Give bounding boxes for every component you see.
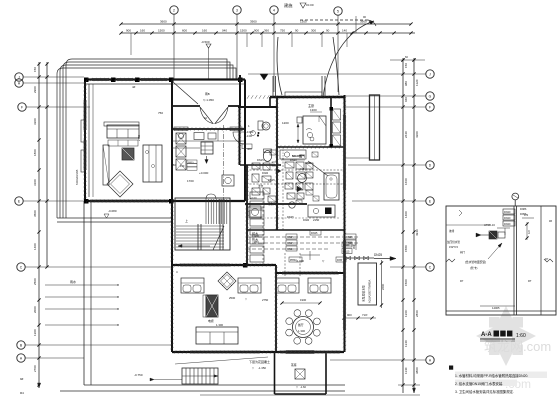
svg-text:DN25: DN25 [311,232,318,235]
svg-text:-0.750: -0.750 [134,373,143,377]
svg-text:R7: R7 [545,257,549,261]
svg-text:1400: 1400 [404,211,408,218]
bedroom closet right wall [330,107,341,148]
svg-text:2750: 2750 [137,134,141,141]
svg-text:DN25: DN25 [346,235,353,239]
svg-text:150: 150 [404,63,408,68]
svg-text:DN15: DN15 [343,251,350,254]
pipe runs with valve tags [246,230,358,277]
detail stacked meter boxes [503,209,515,226]
grid bubble axis E left [15,197,84,205]
svg-text:2000: 2000 [33,306,37,313]
svg-text:DN25: DN25 [287,215,294,219]
detail leader note pipe mount [465,243,502,270]
dining labels [262,298,322,305]
svg-text:2: 2 [173,8,175,12]
bedroom labels [282,103,322,125]
dimension 900 710 below pump room [342,313,376,320]
grid bubble axis G right [345,92,434,100]
tv cabinet [103,145,109,185]
svg-text:3600: 3600 [160,20,167,24]
drawing set label 建施 with elevation mark [284,2,314,9]
wall columns top row [84,78,248,268]
notes block bottom right [449,366,528,395]
svg-text:DN20: DN20 [262,172,269,175]
hall valve label stack [180,160,197,170]
section detail A-A box [446,206,556,315]
svg-text:2750: 2750 [262,298,269,302]
grid bubble axis E right [352,197,434,205]
detail water meter assembly [476,228,510,239]
svg-text:R4: R4 [20,391,24,395]
svg-text:900: 900 [347,313,352,317]
kitchen counter south with sink and stove [308,205,335,222]
living west windows [75,120,85,185]
svg-text:1500: 1500 [404,279,408,286]
svg-text:+0.000: +0.000 [199,171,209,175]
svg-text:PPRA: PPRA [290,259,297,262]
svg-text:2700: 2700 [33,365,37,372]
svg-text:DN15: DN15 [188,162,194,164]
svg-text:AQUA3SET/TW85A: AQUA3SET/TW85A [368,280,372,303]
sideboard dining [143,145,162,182]
svg-text:电视: 电视 [208,319,214,323]
svg-text:1340: 1340 [404,340,408,347]
vestibule inner wall with sills [172,127,245,131]
detail wall line right [540,206,542,315]
svg-text:1120: 1120 [415,79,419,86]
svg-text:1300: 1300 [33,329,37,336]
detail small dims right [460,214,549,283]
terrace nested outline top-left [57,59,236,218]
grid bubble axis A right [330,356,434,364]
svg-text:F: F [21,105,23,109]
svg-text:5: 5 [337,9,339,13]
terrace edge below living room [57,218,172,222]
svg-text:-1.350: -1.350 [258,366,266,370]
bottom porch walls [275,351,327,395]
svg-text:90: 90 [295,29,299,33]
kitchen fixtures row [172,133,245,142]
svg-text:1360: 1360 [404,310,408,317]
right vertical dimension chains [398,58,420,393]
svg-text:3900: 3900 [250,20,257,24]
svg-text:1200: 1200 [282,121,289,125]
rug diamond living [107,171,133,197]
svg-text:4#: 4# [132,85,136,89]
svg-text:1500: 1500 [158,29,165,33]
svg-text:90: 90 [326,29,330,33]
svg-text:RT: RT [528,279,532,283]
svg-text:洗衣: 洗衣 [258,184,264,188]
sofa living room [104,122,139,138]
svg-text:150: 150 [33,67,37,72]
svg-text:主卧: 主卧 [308,103,315,108]
svg-text:DN20: DN20 [504,223,511,226]
svg-text:160: 160 [202,29,207,33]
svg-text:[给水管地面安装]: [给水管地面安装] [465,260,486,264]
grid bubble axis B left [17,341,172,349]
svg-text:DN20: DN20 [303,219,310,222]
svg-text:600: 600 [182,29,187,33]
bed master bedroom [303,116,326,144]
grid bubble axis F right [345,103,434,111]
grid bubble axis C right [390,263,434,271]
family room labels [176,270,248,327]
terrace level -0.750 [134,373,182,381]
svg-text:1:60: 1:60 [516,333,526,339]
grid bubble axis D right [348,161,434,169]
terrace left edge lines bottom [84,201,91,385]
svg-text:J: J [429,72,431,76]
svg-text:餐厅: 餐厅 [298,323,304,327]
detail labels left [447,223,495,249]
grid bubble axis J right [248,70,434,78]
terrace bottom edge lines [60,385,420,395]
svg-text:2500: 2500 [33,278,37,285]
chimney shaft right of bedroom [345,95,380,160]
grid bubble axis 3 top [233,6,241,80]
bathroom fixtures top [242,121,272,162]
svg-text:2200: 2200 [381,283,385,290]
radiator sofas row [181,278,331,293]
dining kitchen walls [172,80,245,202]
svg-text:MGU燃气: MGU燃气 [292,153,305,158]
svg-text:4-9: 4-9 [528,230,531,234]
svg-text:1660: 1660 [404,178,408,185]
svg-text:(管卡): (管卡) [470,266,478,270]
svg-text:1140: 1140 [404,367,408,374]
hall dash-dot pipe line [223,125,225,201]
svg-text:1400: 1400 [33,243,37,250]
svg-text:900: 900 [254,29,259,33]
svg-text:DN25: DN25 [287,235,294,239]
svg-text:14005: 14005 [492,306,500,310]
svg-text:2500: 2500 [229,296,236,300]
svg-text:750: 750 [280,29,285,33]
grid bubble axis F left [18,103,90,111]
porch level label [296,385,306,389]
watermark zhulong star logo [476,306,536,366]
svg-text:150: 150 [171,163,176,167]
rug diamond family room [218,272,236,290]
svg-text:450: 450 [353,244,356,249]
svg-text:DN15: DN15 [287,241,294,245]
mech room dense fixtures cluster [246,147,344,230]
grid bubble axis 2 top [170,6,178,80]
svg-text:1900: 1900 [300,298,307,302]
svg-text:9#: 9# [20,377,24,381]
svg-text:4: 4 [273,8,275,12]
appliance stack kitchen [176,133,186,170]
watermark streaks behind notes [455,372,547,387]
detail bottom dim 1400 [480,306,515,310]
leader arc to canopy note [323,15,374,97]
DN25 exit arrow right [374,253,396,261]
grid bubble axis H left [15,79,84,87]
svg-text:1.300: 1.300 [216,323,223,327]
svg-text:040: 040 [222,29,227,33]
living room labels [104,85,209,218]
entry porch curve right [333,37,339,95]
grid bubble axis J left [15,73,84,81]
pump room dimension 2200 [380,260,385,308]
svg-text:热水: 热水 [252,237,259,242]
svg-text:3500: 3500 [33,210,37,217]
svg-text:300: 300 [311,29,316,33]
svg-text:140: 140 [342,29,347,33]
svg-text:F: F [429,105,431,109]
svg-text:DN5: DN5 [337,259,343,262]
right top short dimension [390,55,425,62]
svg-text:DN25: DN25 [374,253,382,257]
svg-text:2. 给水支管DN15阀门,水表安装.: 2. 给水支管DN15阀门,水表安装. [455,381,503,386]
bedroom window sill top [285,92,322,97]
svg-text:3300: 3300 [33,118,37,125]
leader callouts on left terrace [45,279,119,326]
svg-text:1580: 1580 [404,245,408,252]
elevation mark -0.500 at entry steps [201,40,211,80]
detail title A-A section 1:60 [480,331,526,342]
svg-text:4.0kg: 4.0kg [300,167,307,171]
svg-text:4B: 4B [549,220,552,223]
washing machine [249,206,261,218]
grid bubble axis C left [17,263,172,271]
porch canopy diagonal [173,82,214,104]
svg-text:上: 上 [185,218,188,223]
svg-text:2900: 2900 [33,86,37,93]
svg-text:3100: 3100 [33,179,37,186]
svg-text:3A: 3A [204,117,207,120]
svg-text:1700: 1700 [187,179,194,183]
hall and stair walls [172,201,276,268]
left corner bottom marks [20,377,24,395]
svg-text:雨水: 雨水 [70,279,76,284]
svg-text:雨B: 雨B [205,92,210,96]
svg-text:040: 040 [404,97,408,102]
svg-text:3800: 3800 [415,367,419,374]
svg-text:2640: 2640 [404,131,408,138]
svg-text:±0.00: ±0.00 [306,3,314,7]
small stair bottom terrace [182,368,218,384]
water heater hall [222,175,234,186]
svg-text:卫生间: 卫生间 [268,202,276,206]
svg-text:给水: 给水 [252,231,259,236]
terrace garden note [175,357,270,370]
svg-text:4940: 4940 [415,229,419,236]
top dashed canopy line [300,19,368,21]
svg-text:400: 400 [247,147,252,151]
living room walls [84,80,172,202]
svg-text:DN5S: DN5S [520,213,527,216]
main staircase [175,194,230,250]
svg-text:3. 卫生间给水管安装详见标准图集规定.: 3. 卫生间给水管安装详见标准图集规定. [455,389,514,394]
svg-text:下层为花园覆土: 下层为花园覆土 [249,359,270,364]
window glazing lines [84,78,346,353]
svg-text:1. 水管材料,均采用PP-R给水管附热熔连接DN20.: 1. 水管材料,均采用PP-R给水管附热熔连接DN20. [455,373,528,378]
hall shoe cabinet with arrow [201,142,213,164]
svg-text:160: 160 [140,29,145,33]
svg-text:2150: 2150 [313,218,320,222]
svg-text:G: G [429,94,432,98]
svg-text:A-A: A-A [481,332,492,338]
svg-text:980: 980 [404,81,408,86]
svg-text:DN20: DN20 [504,211,511,214]
svg-text:R7: R7 [460,279,464,283]
svg-text:1.300: 1.300 [298,329,305,333]
svg-text:-0.500: -0.500 [201,40,210,44]
svg-text:▽-1.050: ▽-1.050 [203,98,214,102]
detail pipe riser vertical [512,193,519,315]
svg-text:阀门: 阀门 [460,250,466,254]
left vertical dimension chain [33,62,49,388]
entry double door arcs [200,107,228,124]
svg-text:DN15: DN15 [257,158,264,162]
svg-text:1800: 1800 [33,149,37,156]
svg-text:4300: 4300 [415,131,419,138]
bedside table [297,117,302,123]
svg-text:710!: 710! [362,313,368,317]
console table below sofa [108,140,138,146]
kitchen door arc [233,132,245,144]
coffee table hatched [122,148,134,160]
sofa family room [196,327,238,344]
grid bubble axis 4 top [270,6,278,92]
detail break marks [446,210,553,262]
svg-text:360: 360 [264,29,269,33]
long bench family [203,295,206,317]
svg-text:-1.60: -1.60 [300,385,306,389]
svg-text:900: 900 [126,29,131,33]
bedroom dim arrow [297,124,299,143]
svg-text:+0.00: +0.00 [250,196,257,200]
svg-text:150: 150 [180,164,185,168]
wall hatch texture [83,78,346,354]
grid bubble axis A left [17,354,84,362]
interior partition lines [93,84,218,197]
svg-text:-0.080: -0.080 [108,209,117,213]
svg-text:1500: 1500 [240,29,247,33]
piano black hatched [206,295,218,317]
top grid dimension lines [119,20,415,35]
svg-text:152*0.5: 152*0.5 [449,245,459,249]
shaft closet east of stair [250,190,264,265]
dining room walls bottom right [276,273,344,352]
svg-text:水泵房给水泵: 水泵房给水泵 [362,285,366,302]
svg-text:加压供水管: 加压供水管 [447,240,460,244]
svg-text:3: 3 [236,8,238,12]
svg-text:DN20: DN20 [287,247,294,251]
porch floor line [172,83,245,85]
family room walls bottom left [172,265,276,352]
detail floor line [446,310,556,312]
detail extra labels [446,208,552,254]
svg-text:坡排: 坡排 [449,229,455,233]
svg-text:1300: 1300 [310,108,317,112]
svg-text:DN20: DN20 [504,217,511,220]
round dining table with chairs [286,310,321,345]
svg-text:750: 750 [158,111,163,115]
pipe with valves to pump room [342,238,374,260]
bathtub [324,173,339,200]
grid bubble axis 5 top [334,7,342,92]
svg-text:2860: 2860 [415,310,419,317]
pump room box with vertical label [358,263,377,305]
svg-text:建施: 建施 [284,2,293,9]
svg-text:DN15: DN15 [305,162,312,165]
bedroom suite walls top right [238,75,345,352]
porch table with X [291,363,305,379]
svg-text:茶座: 茶座 [291,363,297,367]
svg-text:DN15: DN15 [268,178,275,182]
section cut arrow at entry [260,74,268,80]
dimension leader drops [131,16,356,55]
svg-text:TARGRLM15: TARGRLM15 [75,169,79,185]
entry wall with door opening [172,105,240,107]
porch column lines [273,76,325,97]
svg-text:DN8S: DN8S [520,208,527,211]
entry porch curve left [277,37,282,95]
